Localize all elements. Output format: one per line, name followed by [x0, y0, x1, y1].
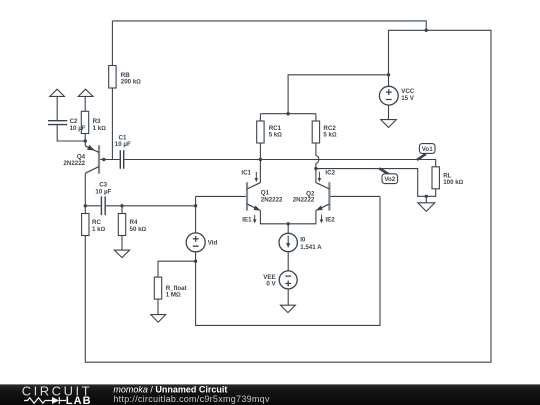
svg-text:100 kΩ: 100 kΩ	[443, 179, 463, 186]
svg-text:200 kΩ: 200 kΩ	[121, 79, 141, 86]
junction RC1/RC2 rail	[286, 112, 289, 115]
svg-text:10 µF: 10 µF	[115, 141, 131, 148]
wire Q2 base lead	[329, 195, 380, 197]
voltage source VCC 15 V	[379, 86, 414, 105]
annotation IC1 current arrow	[241, 170, 258, 182]
ground under VCC	[381, 120, 397, 128]
wire R3 bottom lead	[84, 134, 86, 142]
wire RC2 bottom with hop over horizontal net, down to Q2 collector	[316, 143, 319, 183]
wire Q4 emitter vertical	[84, 141, 86, 146]
wire R4 top lead	[121, 206, 123, 214]
wire RC1 top lead	[259, 114, 261, 121]
resistor RC2	[312, 121, 337, 143]
svg-text:IE2: IE2	[325, 216, 335, 223]
svg-text:Vo2: Vo2	[384, 176, 395, 183]
wire I0 top lead	[287, 224, 289, 234]
junction emitter bus / I0	[287, 222, 290, 225]
wire RC2 top lead	[315, 114, 317, 121]
wire top rail from RB top to right bend	[112, 21, 426, 30]
svg-text:http://circuitlab.com/c9r5xmg7: http://circuitlab.com/c9r5xmg739mqv	[113, 394, 270, 404]
svg-text:5 kΩ: 5 kΩ	[269, 132, 283, 139]
resistor R_float	[154, 277, 186, 299]
wire C3/R4 horizontal net	[85, 205, 195, 207]
svg-text:1 kΩ: 1 kΩ	[93, 125, 107, 132]
wire rail joining RC1 and RC2 tops	[260, 113, 316, 115]
svg-text:Vo1: Vo1	[422, 146, 433, 153]
svg-text:IE1: IE1	[242, 216, 252, 223]
wire input loop: Vid bottom, down, bottom of box, up right side to Q2 base	[196, 196, 380, 325]
svg-text:IC1: IC1	[241, 170, 251, 177]
junction Vid bottom / R_float	[194, 260, 197, 263]
junction C2/R3/Q4 emitter	[84, 139, 87, 142]
resistor R4	[118, 214, 146, 236]
CircuitLab logo resistor zigzag and diode	[24, 397, 66, 404]
wire I0 to VEE lead	[287, 252, 289, 272]
svg-text:0 V: 0 V	[266, 281, 276, 288]
junction top-right rail	[425, 29, 428, 32]
svg-text:2N2222: 2N2222	[261, 197, 283, 204]
svg-text:15 V: 15 V	[401, 95, 415, 102]
junction RL bottom ground	[425, 195, 428, 198]
junction R4 top	[120, 204, 123, 207]
capacitor C1	[115, 134, 131, 169]
junction VCC node	[387, 73, 390, 76]
wire ground stem at RL bottom net	[425, 196, 427, 203]
wire left input vertical upper (to Vid top)	[195, 196, 197, 233]
flag Vo2	[379, 168, 397, 183]
junction Q4 collector / C3 net	[84, 204, 87, 207]
wire VCC source top lead	[388, 75, 390, 87]
wire R_float branch from Vid net	[158, 261, 196, 277]
current source I0 1.541 A	[279, 233, 322, 251]
ground under R_float	[151, 315, 166, 323]
resistor RL	[432, 167, 464, 189]
wire Q4 collector vertical down to C3 net	[84, 173, 86, 206]
svg-text:2N2222: 2N2222	[63, 160, 85, 167]
svg-text:C3: C3	[99, 182, 107, 189]
wire R4 bottom lead to ground	[121, 236, 123, 251]
capacitor C3	[95, 182, 111, 216]
svg-text:LAB: LAB	[66, 395, 92, 405]
junction Q4 base	[102, 158, 105, 161]
ground at RL/Vo2 net	[418, 203, 435, 212]
resistor RC	[82, 214, 106, 236]
ground under R4	[114, 250, 129, 258]
junction RC1 bottom / net	[259, 158, 262, 161]
transistor Q4 (2N2222, mirrored, emitter up)	[63, 145, 99, 174]
svg-text:1 kΩ: 1 kΩ	[92, 226, 106, 233]
annotation IC2 current arrow	[318, 170, 336, 182]
svg-text:momoka / Unnamed Circuit: momoka / Unnamed Circuit	[113, 384, 227, 394]
wire base bus y=159.5 from Q4 base to C1 left plate	[99, 159, 120, 161]
wire R_float bottom lead to ground	[157, 299, 159, 315]
wire C2 bottom to R3/Q4 junction	[57, 125, 85, 141]
svg-text:2N2222: 2N2222	[293, 197, 315, 204]
antenna/supply triangle above R3	[78, 89, 93, 96]
transistor Q2 (2N2222, mirrored)	[293, 182, 330, 210]
voltage source VEE 0 V	[263, 271, 297, 289]
wire RB top lead	[111, 21, 113, 66]
ground under VEE	[281, 305, 296, 312]
svg-text:Vid: Vid	[208, 240, 218, 247]
wire Vo2 net from Q2 collector node to RL bottom	[316, 169, 436, 197]
flag Vo1	[417, 144, 435, 160]
wire R3 top stem to antenna	[84, 96, 86, 111]
wire RC top lead	[84, 206, 86, 214]
svg-text:1.541 A: 1.541 A	[300, 244, 322, 251]
svg-text:10 µF: 10 µF	[95, 189, 111, 196]
svg-text:10 µF: 10 µF	[70, 125, 86, 132]
voltage source Vid	[186, 233, 217, 252]
wire right-side loop: VCC node up, across top-right, down right edge, bottom rail, up left to RC bottom	[85, 30, 491, 362]
svg-text:IC2: IC2	[325, 170, 335, 177]
antenna/supply triangle above C2	[50, 89, 65, 96]
transistor Q1 (2N2222)	[247, 182, 283, 210]
annotation IE1 current arrow	[242, 215, 256, 224]
wire VCC branch left and down to RC1/RC2 rail	[288, 75, 388, 114]
wire VEE bottom lead to ground	[287, 289, 289, 305]
footer bar	[0, 384, 540, 405]
wire emitter bus joining Q1 and Q2 emitters	[260, 211, 316, 224]
junction Q2 collector / Vo2 net	[314, 167, 317, 170]
annotation IE2 current arrow	[320, 215, 336, 224]
wire C2 top stem to antenna	[56, 96, 58, 120]
svg-text:50 kΩ: 50 kΩ	[130, 226, 147, 233]
resistor RB	[109, 66, 142, 89]
wire VCC source bottom lead to ground	[388, 105, 390, 119]
resistor R3	[81, 111, 106, 133]
wire RB bottom lead to base wire	[111, 88, 113, 160]
svg-text:5 kΩ: 5 kΩ	[323, 132, 337, 139]
wire long horizontal net from C1 to RL top	[124, 160, 435, 167]
capacitor C2	[48, 118, 86, 132]
svg-text:1 MΩ: 1 MΩ	[166, 292, 181, 299]
svg-text:I0: I0	[300, 237, 306, 244]
resistor RC1	[257, 121, 283, 143]
wire RC1 bottom lead through node to Q1 collector	[259, 143, 261, 183]
wire Q1 base lead	[196, 195, 247, 197]
junction C3 net / Vid vertical	[194, 204, 197, 207]
